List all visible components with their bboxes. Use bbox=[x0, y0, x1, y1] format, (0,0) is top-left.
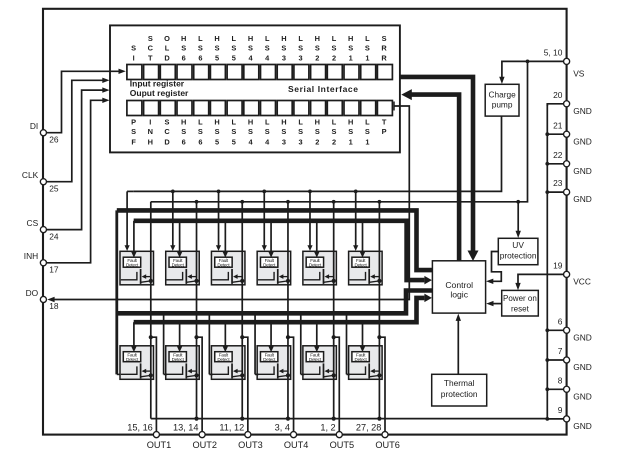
svg-text:S: S bbox=[248, 127, 253, 136]
pin OUT1 terminal circle bbox=[153, 432, 159, 438]
wire OUT4 branch to pin bbox=[288, 337, 294, 431]
svg-text:CS: CS bbox=[27, 218, 39, 228]
svg-text:N: N bbox=[148, 127, 153, 136]
svg-text:H: H bbox=[214, 34, 219, 43]
svg-text:Serial Interface: Serial Interface bbox=[288, 84, 359, 94]
svg-text:L: L bbox=[365, 34, 370, 43]
svg-text:F: F bbox=[131, 137, 136, 146]
svg-text:P: P bbox=[131, 118, 136, 127]
wire GND pin 6 stub bbox=[547, 329, 563, 331]
wire gate feed to LS2 bbox=[163, 313, 165, 374]
svg-text:13, 14: 13, 14 bbox=[173, 423, 199, 433]
driver cell low-side LS5 (fault detect + MOSFET) bbox=[303, 346, 337, 380]
svg-text:Thermal: Thermal bbox=[444, 378, 475, 388]
inner GND rail vertical bbox=[546, 104, 548, 419]
svg-text:OUT1: OUT1 bbox=[147, 440, 172, 450]
wire CLK pin to register block (arrow) bbox=[47, 80, 104, 181]
svg-text:L: L bbox=[332, 34, 337, 43]
svg-text:26: 26 bbox=[49, 134, 59, 144]
svg-text:L: L bbox=[165, 43, 170, 52]
wire gate feed to LS3 bbox=[208, 313, 210, 374]
svg-text:L: L bbox=[298, 34, 303, 43]
svg-text:H: H bbox=[315, 34, 320, 43]
wire command bus drop to HS5 fault-detect (arrow) bbox=[316, 221, 318, 254]
svg-text:S: S bbox=[265, 43, 270, 52]
svg-text:GND: GND bbox=[573, 391, 592, 401]
output register bit squares (16) bbox=[127, 101, 393, 116]
svg-text:protection: protection bbox=[500, 250, 537, 260]
svg-text:5: 5 bbox=[232, 53, 236, 62]
svg-text:C: C bbox=[164, 127, 170, 136]
driver cell low-side LS6 (fault detect + MOSFET) bbox=[349, 346, 383, 380]
svg-text:3: 3 bbox=[299, 53, 303, 62]
wire command bus drop to HS3 fault-detect (arrow) bbox=[224, 221, 226, 254]
block UV protection bbox=[498, 238, 538, 264]
node UV tap on VS rail bbox=[516, 200, 520, 204]
wire LS1 source to GND rail bbox=[150, 337, 152, 418]
wire command bus drop to HS1 fault-detect (arrow) bbox=[133, 221, 135, 254]
svg-text:H: H bbox=[148, 137, 153, 146]
svg-text:2: 2 bbox=[315, 53, 319, 62]
svg-text:S: S bbox=[365, 43, 370, 52]
svg-text:D: D bbox=[164, 53, 170, 62]
svg-text:9: 9 bbox=[558, 405, 563, 415]
wire GND pin 8 stub bbox=[547, 388, 563, 390]
block Power on reset bbox=[502, 290, 539, 316]
svg-text:T: T bbox=[148, 53, 153, 62]
svg-text:S: S bbox=[298, 127, 303, 136]
svg-text:Power on: Power on bbox=[503, 294, 537, 303]
svg-text:2: 2 bbox=[332, 53, 336, 62]
wire OUT3 branch to pin bbox=[242, 337, 248, 431]
wire command bus drop to LS6 fault-detect (arrow) bbox=[362, 322, 364, 348]
wire INH pin to register block (arrow) bbox=[47, 100, 104, 262]
svg-text:INH: INH bbox=[24, 251, 38, 261]
svg-text:S: S bbox=[315, 43, 320, 52]
node OUT5 branch bbox=[332, 335, 336, 339]
wire LS3 source to GND rail bbox=[241, 337, 243, 418]
pin GND (7) terminal circle bbox=[564, 357, 570, 363]
svg-text:11, 12: 11, 12 bbox=[219, 423, 244, 433]
svg-text:S: S bbox=[348, 127, 353, 136]
svg-text:Detect: Detect bbox=[126, 262, 139, 267]
svg-text:Detect: Detect bbox=[309, 357, 322, 362]
pin GND (6) terminal circle bbox=[564, 327, 570, 333]
pin CS (24) terminal circle bbox=[40, 227, 46, 233]
svg-text:VCC: VCC bbox=[573, 277, 591, 287]
svg-text:3: 3 bbox=[282, 53, 286, 62]
wire OUT6 branch to pin bbox=[379, 337, 385, 431]
svg-text:S: S bbox=[281, 127, 286, 136]
pin GND (23) terminal circle bbox=[564, 189, 570, 195]
wire CS pin to register block (arrow) bbox=[47, 90, 104, 230]
svg-text:5, 10: 5, 10 bbox=[544, 48, 563, 58]
serial interface register block U1 outline bbox=[110, 25, 400, 152]
svg-text:S: S bbox=[198, 127, 203, 136]
svg-text:reset: reset bbox=[511, 304, 530, 313]
block Charge pump bbox=[485, 84, 519, 116]
wire VS rail down-arrow to UV protection bbox=[517, 202, 519, 232]
driver cell low-side LS1 (fault detect + MOSFET) bbox=[120, 346, 154, 380]
svg-text:5: 5 bbox=[215, 137, 219, 146]
svg-text:GND: GND bbox=[573, 332, 592, 342]
svg-text:GND: GND bbox=[573, 194, 592, 204]
wire LS5 source to GND rail bbox=[333, 337, 335, 418]
wire charge-pump rail drop to HS3 (arrow) bbox=[217, 190, 221, 194]
thick bus row1 lower (HS fault bus, arrow into control) bbox=[134, 221, 425, 280]
svg-text:1: 1 bbox=[365, 53, 369, 62]
svg-text:S: S bbox=[298, 43, 303, 52]
svg-text:S: S bbox=[365, 127, 370, 136]
wire DO from register tap to DO pin (arrow at pin) bbox=[393, 102, 395, 111]
svg-text:Detect: Detect bbox=[172, 357, 185, 362]
block Thermal protection bbox=[432, 374, 487, 406]
svg-text:3: 3 bbox=[282, 137, 286, 146]
wire VS drain line through HS2 bbox=[195, 200, 199, 204]
svg-text:25: 25 bbox=[49, 183, 59, 193]
svg-text:H: H bbox=[214, 118, 219, 127]
svg-text:22: 22 bbox=[553, 150, 563, 160]
svg-text:L: L bbox=[198, 34, 203, 43]
svg-text:L: L bbox=[298, 118, 303, 127]
svg-text:2: 2 bbox=[315, 137, 319, 146]
pin DI (26) terminal circle bbox=[40, 130, 46, 136]
wire VS drain line through HS3 bbox=[240, 200, 244, 204]
driver cell low-side LS2 (fault detect + MOSFET) bbox=[166, 346, 200, 380]
svg-text:6: 6 bbox=[182, 53, 186, 62]
svg-text:protection: protection bbox=[441, 389, 478, 399]
svg-text:23: 23 bbox=[553, 178, 563, 188]
driver cell low-side LS3 (fault detect + MOSFET) bbox=[211, 346, 245, 380]
svg-text:OUT4: OUT4 bbox=[284, 440, 309, 450]
wire charge-pump rail drop to HS5 (arrow) bbox=[308, 190, 312, 194]
svg-text:H: H bbox=[248, 118, 253, 127]
wire GND pin 9 stub bbox=[547, 418, 563, 420]
svg-text:UV: UV bbox=[512, 240, 524, 250]
svg-text:S: S bbox=[198, 43, 203, 52]
wire command bus drop to LS1 fault-detect (arrow) bbox=[133, 322, 135, 348]
svg-text:GND: GND bbox=[573, 136, 592, 146]
svg-text:Detect: Detect bbox=[355, 357, 368, 362]
pin OUT6 terminal circle bbox=[382, 432, 388, 438]
pin VCC (19) terminal circle bbox=[564, 271, 570, 277]
svg-text:S: S bbox=[181, 127, 186, 136]
svg-text:5: 5 bbox=[215, 53, 219, 62]
svg-text:S: S bbox=[281, 43, 286, 52]
input register bit name labels bbox=[131, 34, 387, 62]
wire VS pin to charge pump (arrow down) bbox=[502, 61, 563, 78]
svg-text:S: S bbox=[382, 34, 387, 43]
svg-text:6: 6 bbox=[182, 137, 186, 146]
svg-text:S: S bbox=[165, 118, 170, 127]
svg-text:C: C bbox=[148, 43, 154, 52]
svg-text:DI: DI bbox=[30, 121, 38, 131]
svg-text:H: H bbox=[248, 34, 253, 43]
driver cell low-side LS4 (fault detect + MOSFET) bbox=[257, 346, 291, 380]
svg-text:GND: GND bbox=[573, 362, 592, 372]
svg-text:1: 1 bbox=[349, 53, 353, 62]
wire GND pin 23 stub bbox=[547, 191, 563, 193]
svg-text:OUT2: OUT2 bbox=[192, 440, 217, 450]
svg-text:3: 3 bbox=[299, 137, 303, 146]
wire VS drain line through HS4 bbox=[286, 200, 290, 204]
input register bit squares (16) bbox=[127, 65, 393, 80]
wire VS drain line through HS6 bbox=[378, 200, 382, 204]
svg-text:S: S bbox=[248, 43, 253, 52]
driver cell high-side HS5 (fault detect + MOSFET) bbox=[303, 251, 337, 284]
svg-text:OUT6: OUT6 bbox=[375, 440, 400, 450]
svg-text:H: H bbox=[181, 118, 186, 127]
thick bus row2 lower (LS fault bus, arrow into control) bbox=[134, 298, 425, 322]
svg-text:17: 17 bbox=[49, 265, 59, 275]
svg-text:L: L bbox=[265, 118, 270, 127]
svg-text:S: S bbox=[231, 43, 236, 52]
svg-text:20: 20 bbox=[553, 90, 563, 100]
pin GND (21) terminal circle bbox=[564, 131, 570, 137]
svg-text:S: S bbox=[181, 43, 186, 52]
svg-text:15, 16: 15, 16 bbox=[127, 423, 153, 433]
node OUT2 branch bbox=[194, 335, 198, 339]
thick bus row2 upper (control to LS cells) bbox=[117, 291, 433, 314]
wire charge-pump rail drop to HS6 (arrow) bbox=[354, 190, 358, 194]
svg-text:1, 2: 1, 2 bbox=[320, 423, 335, 433]
svg-text:L: L bbox=[265, 34, 270, 43]
svg-text:Detect: Detect bbox=[263, 357, 276, 362]
svg-text:L: L bbox=[365, 118, 370, 127]
svg-text:R: R bbox=[381, 43, 387, 52]
svg-text:logic: logic bbox=[450, 290, 468, 300]
svg-text:6: 6 bbox=[198, 53, 202, 62]
svg-text:21: 21 bbox=[553, 120, 563, 130]
node OUT4 branch bbox=[286, 335, 290, 339]
svg-text:6: 6 bbox=[558, 316, 563, 326]
svg-text:S: S bbox=[131, 127, 136, 136]
wire GND pin 7 stub bbox=[547, 359, 563, 361]
wire command bus drop to HS2 fault-detect (arrow) bbox=[179, 221, 181, 254]
svg-text:S: S bbox=[265, 127, 270, 136]
svg-text:CLK: CLK bbox=[22, 170, 39, 180]
node OUT3 branch bbox=[240, 335, 244, 339]
svg-text:R: R bbox=[381, 53, 387, 62]
pin OUT3 terminal circle bbox=[245, 432, 251, 438]
svg-text:OUT3: OUT3 bbox=[238, 440, 263, 450]
wire charge-pump rail drop to HS2 (arrow) bbox=[171, 190, 175, 194]
wire charge-pump rail drop to HS1 (arrow) bbox=[126, 191, 128, 246]
output register bit name labels bbox=[131, 118, 387, 147]
wire gate feed to LS6 bbox=[346, 313, 348, 374]
thick bus left wrap vertical bbox=[115, 210, 118, 374]
svg-text:L: L bbox=[332, 118, 337, 127]
svg-text:27, 28: 27, 28 bbox=[356, 423, 382, 433]
svg-text:2: 2 bbox=[332, 137, 336, 146]
pin OUT2 terminal circle bbox=[199, 432, 205, 438]
wire VCC pin to power-on-reset (arrow down) bbox=[518, 274, 563, 284]
svg-text:GND: GND bbox=[573, 421, 592, 431]
wire command bus drop to LS4 fault-detect (arrow) bbox=[270, 322, 272, 348]
wire LS4 source to GND rail bbox=[287, 337, 289, 418]
svg-text:H: H bbox=[181, 34, 186, 43]
svg-text:S: S bbox=[215, 43, 220, 52]
svg-text:S: S bbox=[215, 127, 220, 136]
wire VS drain line through HS5 bbox=[332, 200, 336, 204]
driver cell high-side HS2 (fault detect + MOSFET) bbox=[166, 251, 200, 284]
svg-text:GND: GND bbox=[573, 166, 592, 176]
svg-text:Detect: Detect bbox=[126, 357, 139, 362]
driver cell high-side HS3 (fault detect + MOSFET) bbox=[211, 251, 245, 284]
pin OUT4 terminal circle bbox=[291, 432, 297, 438]
thick bus row1 upper (control to HS cells) bbox=[117, 210, 433, 270]
driver cell high-side HS1 (fault detect + MOSFET) bbox=[120, 251, 154, 284]
svg-text:18: 18 bbox=[49, 301, 59, 311]
pin GND (8) terminal circle bbox=[564, 386, 570, 392]
svg-text:O: O bbox=[164, 34, 170, 43]
svg-text:1: 1 bbox=[365, 137, 369, 146]
wire DI pin to input register (arrow) bbox=[47, 71, 120, 132]
svg-text:Detect: Detect bbox=[263, 262, 276, 267]
pin OUT5 terminal circle bbox=[336, 432, 342, 438]
svg-text:Detect: Detect bbox=[217, 357, 230, 362]
svg-text:D: D bbox=[164, 137, 170, 146]
pin GND (22) terminal circle bbox=[564, 161, 570, 167]
block Control logic bbox=[432, 261, 485, 313]
svg-text:19: 19 bbox=[553, 261, 563, 271]
wire gate feed to LS5 bbox=[300, 313, 302, 374]
svg-text:Detect: Detect bbox=[355, 262, 368, 267]
svg-text:S: S bbox=[131, 43, 136, 52]
svg-text:S: S bbox=[332, 43, 337, 52]
wire OUT1 branch to pin bbox=[151, 337, 157, 431]
svg-text:L: L bbox=[198, 118, 203, 127]
svg-text:6: 6 bbox=[198, 137, 202, 146]
IC outer boundary box bbox=[43, 9, 567, 435]
HS gate rail left corner down to cell 1 bbox=[127, 190, 133, 192]
wire OUT2 branch to pin bbox=[197, 337, 203, 431]
wire command bus drop to LS2 fault-detect (arrow) bbox=[179, 322, 181, 348]
wire LS6 source to GND rail bbox=[378, 337, 380, 418]
wire charge pump output to HS gate rail bbox=[133, 116, 501, 191]
wire charge-pump rail drop to HS4 (arrow) bbox=[262, 190, 266, 194]
svg-text:pump: pump bbox=[492, 100, 513, 110]
svg-text:I: I bbox=[149, 118, 151, 127]
svg-text:OUT5: OUT5 bbox=[330, 440, 355, 450]
wire GND pin 21 stub bbox=[547, 133, 563, 135]
svg-text:I: I bbox=[133, 53, 135, 62]
svg-text:S: S bbox=[231, 127, 236, 136]
svg-text:P: P bbox=[382, 127, 387, 136]
svg-text:Ouput register: Ouput register bbox=[130, 88, 189, 98]
svg-text:3, 4: 3, 4 bbox=[275, 423, 290, 433]
wire GND pin 22 stub bbox=[547, 163, 563, 165]
pin GND (9) terminal circle bbox=[564, 416, 570, 422]
wire LS2 source to GND rail bbox=[196, 337, 198, 418]
svg-text:S: S bbox=[315, 127, 320, 136]
pin DO (18) terminal circle bbox=[40, 296, 46, 302]
wire OUT5 branch to pin bbox=[334, 337, 340, 431]
svg-text:1: 1 bbox=[349, 137, 353, 146]
svg-text:S: S bbox=[148, 34, 153, 43]
thick bus register serial-out to control logic (arrow down) bbox=[400, 77, 473, 252]
LS source GND rail bbox=[151, 418, 548, 420]
svg-text:S: S bbox=[332, 127, 337, 136]
wire thermal protection to control logic (arrow up) bbox=[457, 319, 459, 374]
svg-text:T: T bbox=[382, 118, 387, 127]
svg-text:GND: GND bbox=[573, 106, 592, 116]
svg-text:H: H bbox=[348, 118, 353, 127]
wire UV protection to control logic (arrow left) bbox=[492, 252, 502, 282]
wire VS drain line through HS1 bbox=[150, 202, 152, 337]
pin INH (17) terminal circle bbox=[40, 260, 46, 266]
svg-text:Detect: Detect bbox=[172, 262, 185, 267]
wire command bus drop to LS3 fault-detect (arrow) bbox=[224, 322, 226, 348]
driver cell high-side HS4 (fault detect + MOSFET) bbox=[257, 251, 291, 284]
svg-text:L: L bbox=[232, 118, 237, 127]
svg-text:H: H bbox=[315, 118, 320, 127]
thick bus control logic to register serial-in (arrow left) bbox=[412, 95, 460, 261]
svg-text:5: 5 bbox=[232, 137, 236, 146]
svg-text:8: 8 bbox=[558, 375, 563, 385]
svg-text:7: 7 bbox=[558, 346, 563, 356]
svg-text:Charge: Charge bbox=[488, 89, 516, 99]
pin CLK (25) terminal circle bbox=[40, 179, 46, 185]
wire gate feed to LS4 bbox=[254, 313, 256, 374]
wire command bus drop to HS6 fault-detect (arrow) bbox=[362, 221, 364, 254]
svg-text:Detect: Detect bbox=[217, 262, 230, 267]
wire VS branch down to HS drain rail bbox=[151, 61, 528, 201]
svg-text:Input register: Input register bbox=[130, 79, 185, 89]
wire power-on-reset to control logic (arrow left) bbox=[492, 303, 502, 305]
pin GND (20) terminal circle bbox=[564, 101, 570, 107]
wire command bus drop to LS5 fault-detect (arrow) bbox=[316, 322, 318, 348]
driver cell high-side HS6 (fault detect + MOSFET) bbox=[349, 251, 383, 284]
svg-text:DO: DO bbox=[26, 288, 39, 298]
node OUT1 branch bbox=[149, 335, 153, 339]
svg-text:S: S bbox=[348, 43, 353, 52]
svg-text:L: L bbox=[232, 34, 237, 43]
pin VS (5, 10) terminal circle bbox=[564, 58, 570, 64]
svg-text:H: H bbox=[281, 34, 286, 43]
svg-text:24: 24 bbox=[49, 231, 59, 241]
svg-text:VS: VS bbox=[573, 69, 585, 79]
node OUT6 branch bbox=[377, 335, 381, 339]
svg-text:Control: Control bbox=[445, 280, 473, 290]
wire command bus drop to HS4 fault-detect (arrow) bbox=[270, 221, 272, 254]
wire GND pin 20 stub to inner rail bbox=[547, 104, 563, 106]
svg-text:Detect: Detect bbox=[309, 262, 322, 267]
svg-text:H: H bbox=[281, 118, 286, 127]
svg-text:H: H bbox=[348, 34, 353, 43]
